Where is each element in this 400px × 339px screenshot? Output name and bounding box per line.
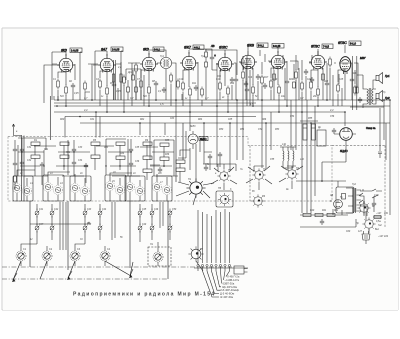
svg-text:С52: С52 [258, 129, 263, 131]
wafer block S5 [216, 191, 233, 207]
svg-text:С50: С50 [172, 209, 177, 211]
switch wafer S2 [217, 169, 230, 182]
wires power [300, 196, 367, 227]
magic eye tube 6Е5С [188, 131, 198, 149]
pilot caps [372, 201, 376, 207]
svg-text:С10: С10 [179, 79, 184, 81]
diagonal stay 2 [40, 261, 75, 279]
resistor R7 [177, 79, 180, 90]
gang section G4 [100, 251, 110, 261]
trimcap c26 [168, 224, 172, 233]
tube V1 6К3 [57, 52, 75, 73]
small rect cluster [127, 87, 130, 92]
output transformer T3 [363, 75, 376, 108]
motor switch wafer S7 [188, 246, 203, 261]
svg-text:С55: С55 [270, 159, 275, 161]
scattered tiny value labels (texture) [16, 56, 386, 241]
capacitor Cx5 [129, 147, 133, 153]
ground arrow 2 [67, 271, 72, 280]
svg-text:R66: R66 [262, 119, 267, 121]
switch wafer S6 [251, 194, 264, 207]
svg-text:С36: С36 [135, 161, 140, 163]
resistor Rx3 [116, 142, 125, 145]
left column components [13, 140, 18, 190]
svg-text:7-0,5: 7-0,5 [323, 45, 329, 49]
svg-text:С56: С56 [330, 116, 335, 118]
shield outline D [152, 176, 172, 201]
svg-text:R42: R42 [334, 209, 339, 212]
dial lamp block [148, 242, 171, 266]
resistor R6 [148, 85, 151, 96]
capacitor C9e [256, 74, 260, 80]
svg-text:Л 4В П-2а: Л 4В П-2а [227, 275, 240, 279]
svg-text:6Е5С: 6Е5С [200, 137, 207, 141]
svg-text:С63: С63 [170, 118, 175, 120]
resistor R30 [315, 213, 323, 216]
shield outline B [43, 175, 64, 201]
wires V1 [58, 64, 75, 106]
coil L2 [22, 186, 31, 195]
svg-text:С13: С13 [216, 79, 221, 81]
svg-text:R60: R60 [60, 119, 65, 121]
capacitor Cx2 [20, 160, 24, 166]
trimcap c20 [98, 224, 102, 233]
trimcap c14 [50, 209, 54, 218]
svg-text:С33: С33 [78, 147, 83, 149]
resistor R27 [143, 156, 152, 159]
label 6Е5С [199, 137, 208, 141]
resistor R8 [182, 81, 185, 92]
svg-text:R33: R33 [104, 147, 109, 149]
coil L5 [70, 183, 79, 192]
svg-text:МВУ: МВУ [360, 56, 366, 60]
speaker wires [339, 56, 384, 110]
svg-text:С16: С16 [248, 77, 253, 79]
wires T1 [149, 50, 176, 100]
coil L11 [152, 182, 161, 191]
block ladder wires [18, 146, 178, 176]
left vertical feeders [22, 96, 51, 201]
svg-text:~110В-127а: ~110В-127а [225, 278, 240, 282]
tube1 left loop [44, 65, 98, 103]
resistor R22 [31, 142, 40, 145]
on-off switch [359, 189, 365, 203]
svg-text:R31: R31 [44, 149, 49, 151]
coil L7 [105, 181, 114, 190]
svg-text:С45: С45 [142, 208, 147, 211]
tube V5 6Х6С [216, 50, 234, 72]
mains plug [362, 231, 370, 244]
long verticals through chassis [30, 123, 183, 279]
block junction dots [21, 151, 164, 166]
svg-text:R14: R14 [230, 82, 235, 85]
resistor Rx7 [176, 160, 185, 163]
svg-text:Омер №: Омер № [366, 127, 376, 130]
svg-text:Др1: Др1 [127, 72, 133, 74]
trimcap c17 [83, 209, 87, 218]
svg-text:Д-5 40-8Ом: Д-5 40-8Ом [220, 292, 234, 296]
svg-text:С54: С54 [290, 115, 295, 118]
svg-text:0,05: 0,05 [116, 91, 121, 93]
plug box [234, 266, 244, 274]
resistor R2h [354, 85, 357, 96]
capacitor C6 [285, 79, 289, 85]
svg-text:С61: С61 [90, 119, 95, 121]
trimcap c21 [138, 209, 142, 218]
wires V9 [338, 63, 358, 106]
capacitor C8 [350, 77, 354, 83]
trimcap c22 [150, 209, 154, 218]
capacitor C10 [40, 162, 44, 168]
svg-text:С47: С47 [39, 223, 44, 226]
chassis dash right extension [332, 146, 385, 229]
bus ground [65, 116, 256, 118]
resistor R25 [91, 155, 100, 158]
resistor R19 [310, 80, 313, 91]
connector fan lines [203, 271, 230, 297]
wire right cap [378, 108, 382, 158]
wire mesh t1 [52, 61, 355, 112]
chassis dash-dot line 1 [2, 267, 232, 279]
electrolytic cap E1 [303, 124, 307, 140]
svg-text:1,5: 1,5 [160, 102, 164, 106]
svg-text:R50: R50 [219, 129, 224, 131]
svg-text:6П3С: 6П3С [338, 41, 347, 45]
resistor R28 [143, 169, 152, 172]
coil L14 [288, 147, 289, 168]
resistor R2b [84, 81, 87, 92]
power labels [330, 196, 389, 238]
vertical drops from buses [65, 100, 390, 215]
capacitor C2 [112, 82, 116, 88]
wires grpC [110, 145, 147, 201]
value box V8 [322, 44, 333, 49]
tube V6 6Ж8 [239, 46, 257, 70]
wafer S3 leads [246, 166, 272, 190]
svg-text:R34: R34 [120, 152, 125, 155]
capacitor Cx6 [129, 161, 133, 167]
svg-text:R32: R32 [66, 152, 71, 154]
power transformer Tr [346, 188, 361, 213]
power area top wire [296, 162, 346, 187]
svg-text:Гр2: Гр2 [385, 96, 390, 100]
resistor R15 [270, 79, 273, 90]
wires gang [21, 244, 105, 266]
resistor R3 [99, 79, 102, 90]
value box V9 [349, 41, 361, 46]
svg-text:R40: R40 [310, 209, 315, 212]
coil group B (MW antenna) [43, 142, 100, 201]
cap in box [342, 194, 346, 200]
resistor Rx8 [176, 168, 185, 171]
svg-text:R36: R36 [165, 154, 170, 156]
capacitor Cx4 [72, 160, 76, 166]
oscillator coil stack [280, 147, 296, 171]
coil L6 [80, 186, 89, 195]
wires V5 [220, 63, 236, 112]
svg-text:R17: R17 [264, 77, 269, 79]
resistor Rx6 [160, 157, 169, 160]
resistor R24 [91, 142, 100, 145]
svg-text:R20: R20 [289, 79, 294, 81]
svg-text:4,7: 4,7 [300, 96, 304, 100]
resistor R13 [261, 75, 264, 86]
capacitor C9c [194, 85, 198, 91]
svg-text:5-0,1: 5-0,1 [258, 44, 264, 48]
antenna jack [12, 124, 22, 136]
resistor R12 [242, 70, 245, 81]
trimcap c15 [35, 224, 39, 233]
capacitor C9f [304, 69, 308, 75]
tube V9 6П3С output (bold) [340, 57, 351, 74]
junction dots [56, 99, 391, 124]
shield outline B2 [70, 176, 91, 201]
svg-text:ЭД: ЭД [330, 195, 334, 197]
resistor R32 [355, 85, 358, 96]
value box V6 [257, 43, 268, 48]
svg-text:2-0,05: 2-0,05 [112, 48, 120, 52]
divider dashed [249, 146, 251, 202]
tube V4 6Ж7 [180, 50, 198, 71]
capacitor Cx7 [158, 167, 162, 173]
trimcap c18 [98, 209, 102, 218]
value box V3 [153, 47, 164, 52]
resistor R17 [295, 70, 298, 81]
coil L3 [43, 182, 52, 191]
screen box V1 [52, 52, 82, 100]
svg-text:Зф 40П-20а: Зф 40П-20а [222, 285, 237, 289]
svg-text:С48: С48 [87, 223, 92, 226]
resistor R5 [140, 79, 143, 90]
wires V7 [271, 61, 287, 112]
bus AVC [54, 105, 390, 107]
gang section G3 [70, 251, 80, 261]
svg-text:0,05: 0,05 [74, 93, 79, 95]
svg-text:6Ж8: 6Ж8 [247, 44, 254, 48]
svg-text:4,7: 4,7 [205, 96, 209, 100]
wafer S1 fan wires [176, 170, 214, 205]
chassis dashed box [8, 137, 332, 202]
coil group A (LW antenna) [12, 142, 44, 201]
resistor R2 [65, 85, 68, 96]
svg-text:С22: С22 [307, 79, 312, 81]
ground arrow 3 [129, 269, 133, 278]
diagonal stay 3 [105, 261, 133, 276]
capacitor Cx3 [72, 147, 76, 153]
wires box texture [18, 138, 190, 182]
svg-text:С41: С41 [39, 208, 44, 211]
wires grpD [150, 165, 167, 201]
bus B2 [80, 122, 390, 124]
svg-text:С25: С25 [339, 79, 344, 81]
svg-text:Ж 40Г-60а: Ж 40Г-60а [220, 295, 234, 299]
svg-text:R64: R64 [198, 118, 203, 121]
capacitor C3 [154, 81, 158, 87]
svg-text:1-0,05: 1-0,05 [71, 49, 79, 53]
extra texture tubes V5-V8 region [244, 50, 339, 106]
value box V4 [193, 45, 204, 50]
svg-text:R26: R26 [352, 73, 357, 75]
resistor R2c [123, 75, 126, 86]
coil L13 [283, 147, 284, 168]
coil L4 [53, 185, 62, 194]
resistor R26 [143, 142, 152, 145]
coil L12 [162, 185, 171, 194]
svg-text:~127 220: ~127 220 [378, 235, 389, 238]
svg-text:2,2: 2,2 [84, 108, 88, 112]
resistor R14 [252, 85, 255, 96]
svg-text:С35: С35 [135, 147, 140, 149]
resistor R31 [327, 213, 335, 216]
svg-text:6-0,25: 6-0,25 [273, 44, 281, 48]
bus B+ [54, 99, 390, 101]
electrolytic cap E2 [312, 124, 316, 140]
svg-text:0,5а: 0,5а [376, 220, 381, 223]
resistor Rx5 [160, 143, 169, 146]
svg-text:С42: С42 [54, 208, 59, 211]
shield outline C [105, 175, 126, 201]
bus heater [54, 111, 345, 113]
svg-text:С44: С44 [102, 208, 107, 211]
scattered small value labels [23, 126, 346, 251]
coil L10 [135, 186, 144, 195]
resistor R2e [170, 73, 173, 84]
capacitor C1 [71, 83, 75, 89]
resistor R1 [57, 79, 60, 90]
trimcap c25 [168, 209, 172, 218]
svg-text:С32: С32 [27, 160, 32, 162]
phono motor [334, 200, 343, 209]
resistor R23 [31, 155, 40, 158]
resistor R18 [301, 81, 304, 92]
bus small labels [84, 96, 334, 112]
resistor R29 [303, 213, 311, 216]
label V7 [272, 44, 284, 49]
svg-text:6Х6С: 6Х6С [219, 46, 228, 50]
vertical wire bundle to connector [198, 209, 230, 263]
pad bus wires [30, 202, 163, 250]
resistor R2g [329, 57, 332, 68]
capacitor C9d [230, 77, 234, 83]
svg-text:2,2: 2,2 [117, 67, 122, 69]
wires mid [243, 56, 247, 106]
extra texture between tubes 2-3 [112, 60, 144, 106]
wires grpA [17, 145, 42, 201]
capacitor C9b [162, 87, 166, 93]
coil group C (SW antenna) [105, 142, 152, 201]
value box V2 [111, 47, 123, 52]
resistor R20 [317, 87, 320, 98]
voltage selector [357, 201, 370, 214]
svg-text:127: 127 [358, 230, 363, 233]
capacitor C27 [320, 219, 324, 225]
trimcap c19 [83, 224, 87, 233]
resistor R2d [135, 63, 138, 74]
svg-text:R23: R23 [324, 81, 329, 83]
shield outline C2 [125, 176, 145, 201]
shield outline A [13, 176, 33, 201]
svg-text:8-1,0: 8-1,0 [350, 42, 356, 46]
capacitor C28 [358, 97, 362, 103]
diagonal stay 4 [196, 261, 203, 271]
capacitor C11 [84, 163, 88, 169]
svg-text:R53: R53 [275, 129, 280, 131]
svg-text:С65: С65 [228, 119, 233, 121]
svg-text:6Е5С: 6Е5С [190, 126, 196, 128]
resistor R9 [189, 87, 192, 98]
trimcap c13 [35, 209, 39, 218]
svg-text:6К3: 6К3 [143, 48, 149, 52]
ground arrow 1 [12, 273, 17, 282]
fuse [373, 216, 382, 219]
resistor R16 [278, 85, 281, 96]
svg-text:2,2: 2,2 [330, 108, 334, 112]
screen box V2 [95, 51, 123, 100]
capacitor C5 [245, 87, 249, 93]
speaker LS1 [376, 73, 383, 84]
resistor R2f [201, 87, 204, 98]
svg-text:Вкл: Вкл [375, 228, 380, 231]
capacitor Cx1 [20, 147, 24, 153]
svg-text:С51: С51 [205, 164, 210, 166]
coil L9 [125, 182, 134, 191]
wires V2 [100, 64, 121, 112]
wires L13-15 [280, 147, 296, 171]
trimcap c16 [50, 224, 54, 233]
svg-text:R41: R41 [322, 209, 327, 212]
coil L8 [115, 185, 124, 194]
resistor R10 [219, 81, 222, 92]
capacitor C7 [325, 81, 329, 87]
gang section G2 [42, 251, 52, 261]
svg-text:L10: L10 [282, 143, 287, 146]
wires V4 [183, 62, 198, 112]
coupling stack T2 [189, 49, 217, 106]
motor unit box [336, 187, 354, 213]
resistor R4 [106, 86, 109, 97]
svg-text:6ЗВТ-30а: 6ЗВТ-30а [223, 281, 235, 285]
switch wafer S4 [285, 167, 298, 180]
wires V3 [141, 69, 156, 106]
rectifier tube 5Ц4С [340, 128, 353, 141]
wires mid2 [296, 55, 302, 112]
svg-text:С46: С46 [154, 208, 159, 211]
tube V8 6П3С [309, 49, 327, 70]
wires pad row [37, 204, 170, 244]
wires V6 [253, 62, 262, 106]
trimcap c23 [138, 224, 142, 233]
top wire over V5 [205, 50, 237, 75]
capacitor C29 [332, 128, 336, 134]
svg-text:Гр1: Гр1 [385, 74, 390, 78]
svg-text:С49: С49 [142, 223, 147, 226]
speaker LS2 [376, 91, 383, 102]
tuning gang C row [16, 244, 110, 266]
tube V2 6А7 [98, 51, 116, 73]
long verticals inside box [44, 139, 174, 176]
coil L15 [293, 147, 294, 168]
resistor Rx1 [60, 142, 69, 145]
wires grpB [48, 145, 95, 201]
tube V3 6К3 [140, 51, 158, 72]
trimmer pad row 1 [30, 202, 172, 250]
svg-text:~127: ~127 [376, 212, 382, 215]
resistor Rx2 [60, 155, 69, 158]
connector strip [194, 264, 248, 274]
svg-text:М: М [330, 200, 332, 203]
svg-text:R51: R51 [240, 129, 245, 131]
wafer area link wires [203, 164, 296, 172]
